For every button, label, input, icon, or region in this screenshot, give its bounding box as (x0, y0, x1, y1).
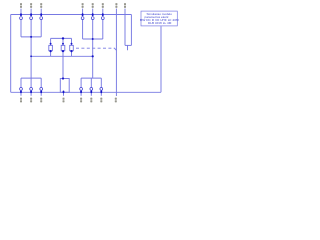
wire bottom bus edge (11, 91, 161, 93)
pin 1 pad (20, 13, 22, 16)
diode D3 body (70, 45, 74, 50)
wire pin 1 stub (20, 9, 22, 15)
diode D2 anode dot (62, 43, 64, 45)
pin 12 number label (63, 98, 65, 100)
wire jog drop (127, 45, 129, 50)
diode D1 cathode dot (49, 50, 51, 52)
wire pin 11 lower stub (40, 90, 42, 96)
wire pin 7 vertical through (115, 9, 117, 96)
resistor bottom pad (63, 91, 65, 94)
junction node diode top bus (62, 37, 64, 39)
wire pin 13 riser (90, 78, 92, 87)
wire right bus edge (160, 26, 162, 92)
wire pin 9 riser (20, 78, 22, 87)
pin 2 terminal circle (30, 17, 33, 20)
wire diode D3 anode stem (71, 38, 73, 45)
pin 9 pad (20, 91, 22, 94)
diode D2 body (61, 45, 65, 50)
pin 5 number label (92, 3, 94, 5)
pin 13 pad (90, 91, 92, 94)
wire right trio bus (83, 38, 103, 40)
pin 12 pad (80, 91, 82, 94)
wire bottom-left rung (21, 77, 41, 79)
wire pin 8 drop (124, 9, 126, 46)
wire pin 9 lower stub (20, 90, 22, 96)
resistor R1 body (60, 79, 69, 93)
pin 6 number label (102, 3, 104, 5)
wire pin 2 drop long (30, 20, 32, 78)
pin 10 pad (30, 91, 32, 94)
pin 11 terminal circle (40, 88, 43, 91)
wire pin 11 riser (40, 78, 42, 87)
pin 11 pad (40, 91, 42, 94)
wire pin 12 lower stub (80, 90, 82, 96)
wire pin 3 drop (40, 20, 42, 37)
wire pin 14 lower stub (100, 90, 102, 96)
wire diode D2 anode stem (62, 38, 64, 45)
pin 13 terminal circle (90, 88, 93, 91)
pin 14 number label (90, 98, 92, 100)
pin 3 terminal circle (40, 17, 43, 20)
wire pin 6 stub (102, 9, 104, 15)
wire pin 4 stub (82, 9, 84, 15)
diode D1 anode dot (50, 43, 52, 45)
diode D3 anode dot (71, 43, 73, 45)
annotation box border (141, 11, 177, 26)
wire pin 6 drop (102, 20, 104, 39)
wire pin 13 lower stub (90, 90, 92, 96)
pin 7 number label (115, 3, 117, 5)
wire diode row top bus (51, 37, 72, 39)
pin 10 number label (30, 98, 32, 100)
wire substrate diagonal tie (114, 48, 117, 51)
pin 11 number label (40, 98, 42, 100)
pin 2 number label (30, 3, 32, 5)
diode D1 body (49, 45, 53, 50)
junction node diode bottom bus right (92, 55, 94, 57)
pin 4 terminal circle (81, 17, 84, 20)
wire diode D1 cathode stem (50, 51, 52, 57)
pin 16 number label (115, 98, 117, 100)
wire pin 10 riser (30, 78, 32, 87)
wire resistor bottom stub (63, 92, 65, 96)
pin 6 terminal circle (101, 17, 104, 20)
pin 13 number label (80, 98, 82, 100)
wire substrate dashed line (76, 47, 114, 49)
wire diode bottom bus (31, 55, 93, 57)
junction node left trio (30, 36, 32, 38)
wire pin 5 drop long (92, 20, 94, 78)
wire left bus edge (10, 15, 12, 93)
pin 1 number label (20, 3, 22, 5)
pin 12 terminal circle (80, 88, 83, 91)
svg-text:DLB UFW LL 4M: DLB UFW LL 4M (148, 21, 172, 25)
pin 5 pad (92, 13, 94, 16)
pin 9 terminal circle (20, 88, 23, 91)
pin 14 terminal circle (100, 88, 103, 91)
wire diode D1 anode stem (50, 38, 52, 45)
wire top-right corner drop (130, 15, 132, 46)
pin 6 pad (102, 13, 104, 16)
wire pin 4 drop (82, 20, 84, 39)
pin 3 number label (40, 3, 42, 5)
pin 2 pad (30, 13, 32, 16)
pin 10 terminal circle (30, 88, 33, 91)
diode D2 cathode dot (62, 50, 64, 52)
wire jog horizontal (125, 44, 131, 46)
wire left trio bus (21, 36, 41, 38)
pin 15 number label (100, 98, 102, 100)
wire diode D2 cathode to resistor (62, 51, 64, 79)
wire pin 3 stub (40, 9, 42, 15)
pin 4 number label (82, 3, 84, 5)
wire top bus edge (11, 14, 132, 16)
pin 14 pad (100, 91, 102, 94)
pin 1 terminal circle (20, 17, 23, 20)
wire pin 14 riser (100, 78, 102, 87)
wire diode D3 cathode stem (71, 51, 73, 57)
diode D3 cathode dot (70, 50, 72, 52)
pin 9 number label (20, 98, 22, 100)
junction node diode bottom bus left (30, 55, 32, 57)
wire pin 2 stub (30, 9, 32, 15)
pin 3 pad (40, 13, 42, 16)
junction node resistor top (62, 77, 64, 79)
wire pin 10 lower stub (30, 90, 32, 96)
wire pin 1 drop (20, 20, 22, 37)
pin 8 number label (124, 3, 126, 5)
junction node right trio (92, 38, 94, 40)
pin 5 terminal circle (91, 17, 94, 20)
wire bottom-right rung (81, 77, 101, 79)
wire pin 12 riser (80, 78, 82, 87)
wire pin 5 stub (92, 9, 94, 15)
pin 4 pad (82, 13, 84, 16)
